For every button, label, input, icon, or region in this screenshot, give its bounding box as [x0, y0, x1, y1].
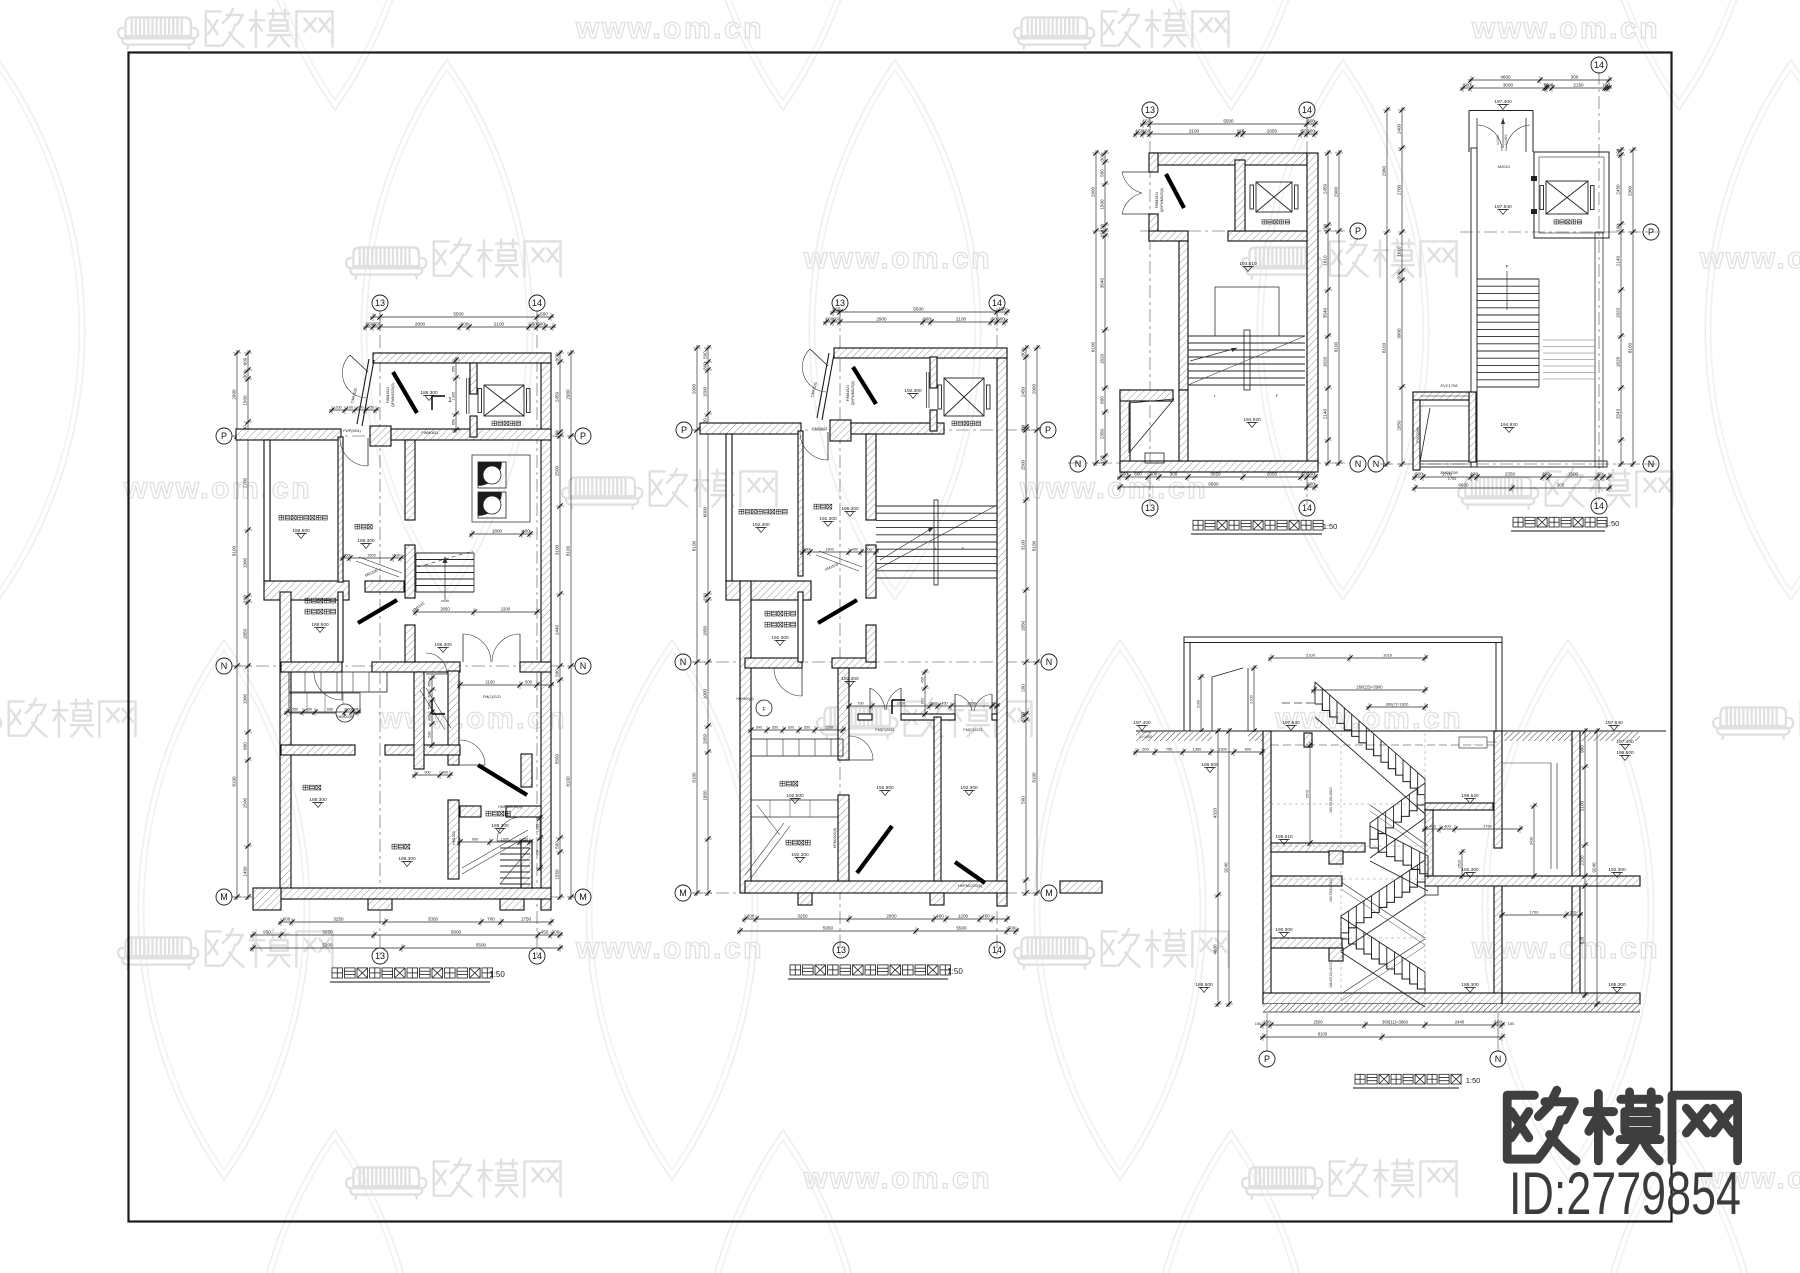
svg-text:2350: 2350	[1100, 428, 1105, 439]
svg-text:192.300: 192.300	[771, 635, 789, 641]
top dimension row (A)	[370, 313, 554, 321]
svg-text:www.om.cn: www.om.cn	[1699, 242, 1800, 275]
left vdim (E)	[1214, 728, 1222, 1007]
svg-text:530: 530	[428, 703, 432, 709]
annex left wall (D)	[1413, 400, 1420, 470]
svg-text:300: 300	[461, 322, 469, 327]
chamfer dims (A)	[329, 406, 379, 414]
svg-text:150: 150	[1495, 1020, 1503, 1025]
svg-text:300: 300	[997, 317, 1005, 322]
chamfer wall and entrance doors (B top-left)	[822, 354, 834, 420]
svg-text:P: P	[221, 431, 227, 441]
svg-text:150: 150	[833, 317, 841, 322]
svg-text:300: 300	[1100, 153, 1105, 161]
axis bubble N	[1490, 1051, 1506, 1067]
label: peacetime exhaust shaft (B)	[765, 622, 796, 627]
pier at chamfer (B)	[830, 420, 851, 441]
watermark: sofa + logo outline	[1458, 469, 1672, 509]
inner wall seg (A)	[405, 440, 415, 520]
top door recess walls (D)	[1469, 110, 1533, 112]
bottom dims row2 (E)	[1260, 1033, 1505, 1041]
svg-text:5500: 5500	[1223, 119, 1234, 124]
room label: airtight passage (B)	[786, 840, 810, 845]
cell dims (B)	[748, 726, 846, 734]
stair treads (C)	[1188, 336, 1305, 385]
dims above stair (B)	[800, 548, 879, 556]
note box (E)	[1459, 737, 1487, 748]
svg-text:FM(C)2021: FM(C)2021	[875, 728, 894, 732]
svg-text:N: N	[1648, 459, 1655, 469]
svg-text:500: 500	[703, 351, 708, 359]
beam under landing 190.3 (E)	[1329, 948, 1343, 961]
svg-text:www.om.cn: www.om.cn	[803, 1162, 992, 1195]
top dim row1 (D)	[1468, 76, 1612, 84]
svg-text:750: 750	[1166, 747, 1173, 752]
axis 13 line (B)	[839, 311, 841, 958]
upper dim (E)	[1268, 654, 1428, 662]
stair treads bottom (A)	[500, 848, 530, 884]
vent line double diagonal (A bottom right)	[462, 830, 528, 868]
stairwell left wall (C)	[1179, 241, 1188, 390]
stair arrow (C)	[1190, 348, 1237, 361]
svg-text:1850: 1850	[243, 628, 248, 639]
chamfer door leaf+arc (B)	[810, 349, 828, 366]
svg-text:197.540: 197.540	[1605, 720, 1623, 726]
hatch under bottom slab (E)	[1263, 1004, 1640, 1012]
stair direction diagonal (B)	[876, 505, 997, 570]
right inner dims (B)	[1022, 345, 1030, 896]
svg-text:500: 500	[540, 312, 548, 317]
top dim row2 (D)	[1460, 84, 1612, 92]
svg-text:FWM0811: FWM0811	[421, 431, 438, 435]
wall under landing (E)	[1425, 810, 1433, 876]
outer wall right (B)	[997, 358, 1007, 906]
elevator (C)	[1250, 182, 1298, 212]
door FWP(M01) on P wall (A)	[367, 438, 369, 466]
stair up arrow (D)	[1506, 271, 1508, 310]
top dim row1 (B)	[830, 308, 1010, 316]
svg-text:3100: 3100	[1189, 129, 1200, 134]
svg-text:450: 450	[541, 930, 549, 935]
svg-text:2050: 2050	[1267, 129, 1278, 134]
svg-text:300: 300	[747, 914, 755, 919]
svg-text:1750: 1750	[521, 917, 532, 922]
svg-text:200: 200	[703, 593, 708, 601]
title text E	[1355, 1074, 1461, 1084]
dashed continuation above cut (E)	[1271, 744, 1494, 746]
svg-text:1000: 1000	[703, 688, 708, 699]
svg-text:2100: 2100	[1250, 695, 1254, 703]
svg-text:500: 500	[1021, 796, 1026, 804]
section left wall (E)	[1263, 731, 1271, 1004]
svg-text:820: 820	[1580, 936, 1585, 944]
svg-text:250: 250	[345, 708, 351, 712]
axis bubble 13	[833, 942, 849, 958]
axis bubble N	[1368, 456, 1384, 472]
top dimension row 2 (A)	[363, 323, 556, 331]
svg-text:650: 650	[452, 366, 456, 372]
svg-text:500: 500	[865, 548, 871, 552]
stair flight F3 (E)	[1370, 826, 1428, 891]
svg-text:13: 13	[375, 951, 385, 961]
shaft wall thin (A)	[338, 592, 343, 662]
axis 14 line	[536, 311, 538, 958]
wall on axis N seg2 (A)	[372, 662, 460, 672]
svg-text:1300: 1300	[1218, 747, 1227, 752]
svg-text:3350: 3350	[428, 917, 439, 922]
shaft wall upper (B)	[930, 357, 937, 388]
axis bubble P	[1259, 1051, 1275, 1067]
svg-text:900: 900	[472, 838, 478, 842]
bottom dims row3 (A)	[250, 944, 563, 952]
svg-text:300: 300	[1307, 482, 1315, 487]
svg-text:5500: 5500	[453, 312, 464, 317]
penthouse roof outline (E)	[1184, 637, 1502, 731]
svg-text:2543: 2543	[1616, 408, 1621, 419]
exhaust fan lower (A)	[478, 492, 506, 518]
blast valve bold diag (B bottom right)	[955, 862, 985, 883]
corridor wall seg2 (B)	[901, 714, 955, 720]
svg-text:200: 200	[1470, 472, 1478, 477]
svg-text:N: N	[1495, 1054, 1502, 1064]
svg-text:3430: 3430	[1530, 837, 1534, 845]
svg-text:150: 150	[1323, 224, 1328, 232]
svg-text:2900: 2900	[1091, 186, 1096, 197]
construction vertical dashed lines (E)	[1340, 733, 1342, 1004]
svg-text:300: 300	[352, 708, 358, 712]
svg-text:100: 100	[347, 406, 353, 410]
svg-text:1550: 1550	[555, 869, 560, 880]
landing slab 196.520 (E)	[1425, 803, 1493, 810]
door HM1020 (A)	[460, 764, 485, 766]
right outer dims (C)	[1335, 150, 1343, 466]
svg-text:300: 300	[1008, 926, 1016, 931]
svg-text:2900: 2900	[1628, 185, 1633, 196]
bottom slab 188.300 (E)	[1263, 993, 1502, 1004]
svg-text:3540: 3540	[1100, 277, 1105, 288]
watermark: sofa + logo outline	[817, 699, 1031, 739]
svg-text:P: P	[1045, 425, 1051, 435]
wall at P right (C)	[1228, 231, 1307, 241]
svg-text:14: 14	[992, 945, 1002, 955]
stair treads upper (A)	[416, 553, 474, 592]
svg-text:200: 200	[1546, 83, 1554, 88]
left inner dims (D)	[1398, 107, 1406, 467]
svg-text:50: 50	[1301, 129, 1307, 134]
watermark: sofa + logo outline	[346, 1159, 560, 1199]
left ground dims (E)	[1133, 748, 1265, 756]
svg-text:P: P	[1355, 226, 1361, 236]
svg-text:188.300: 188.300	[309, 797, 327, 803]
svg-text:N: N	[1373, 459, 1380, 469]
room label: plenum (A)	[355, 524, 372, 529]
svg-text:N: N	[221, 661, 228, 671]
svg-text:8100: 8100	[692, 772, 697, 783]
svg-text:8100: 8100	[1382, 342, 1387, 353]
mid vdim2 (E)	[1530, 803, 1538, 879]
room divider wall (B)	[798, 431, 803, 576]
door lower right (A)	[497, 840, 521, 842]
svg-text:192.500: 192.500	[786, 793, 804, 799]
svg-text:1500: 1500	[367, 554, 375, 558]
left outer dims (C)	[1092, 150, 1100, 466]
svg-text:QFWM1525(6): QFWM1525(6)	[391, 383, 395, 407]
room label: expansion room (A)	[303, 785, 321, 790]
svg-text:1200: 1200	[958, 914, 969, 919]
flight dim (E)	[1311, 686, 1428, 694]
outer wall left (B)	[740, 581, 751, 893]
svg-text:196.520: 196.520	[1461, 793, 1479, 799]
horiz wall right area seg2 (A)	[506, 806, 541, 817]
chamfer door leaf+arc (A)	[350, 355, 368, 372]
svg-text:300: 300	[1571, 75, 1579, 80]
section right wall lower (E)	[1494, 884, 1502, 1004]
svg-text:6600: 6600	[1208, 482, 1219, 487]
svg-text:3540: 3540	[1323, 307, 1328, 318]
pier stub below M (A)	[500, 899, 524, 910]
watermark: sofa + logo outline	[1713, 699, 1800, 739]
svg-text:1900: 1900	[243, 557, 248, 568]
penthouse door profile (E)	[1211, 677, 1213, 731]
svg-text:2440: 2440	[1455, 1020, 1465, 1025]
svg-text:192.300: 192.300	[791, 852, 809, 858]
axis P line (B)	[692, 429, 1040, 431]
svg-text:4600: 4600	[1213, 944, 1218, 955]
axis bubble N	[1041, 654, 1057, 670]
inner wall seg (B)	[866, 625, 876, 662]
svg-text:2450: 2450	[1021, 386, 1026, 397]
svg-text:150: 150	[1508, 1021, 1515, 1026]
svg-text:2100: 2100	[1580, 800, 1585, 811]
right vdim outer (E)	[1593, 728, 1601, 1007]
svg-text:2700: 2700	[243, 477, 248, 488]
svg-text:196.500: 196.500	[1616, 750, 1634, 756]
svg-text:2850: 2850	[703, 733, 708, 744]
svg-text:2960: 2960	[1382, 165, 1387, 176]
room label: fan room (A)	[279, 515, 327, 520]
fan dims (A)	[469, 530, 533, 538]
svg-text:8100: 8100	[232, 545, 237, 556]
svg-text:FM*0821: FM*0821	[812, 427, 827, 431]
axis P line	[232, 435, 575, 437]
svg-text:188.300: 188.300	[491, 823, 509, 829]
witness lines to bubbles (E)	[1266, 1013, 1268, 1051]
svg-text:450: 450	[921, 677, 925, 683]
stair flight treads (D)	[1477, 279, 1539, 387]
ground hatch right (E)	[1504, 732, 1640, 741]
svg-text:150: 150	[1143, 129, 1151, 134]
landing slab 190.300 (E)	[1271, 938, 1342, 948]
svg-text:14: 14	[532, 298, 542, 308]
svg-text:550: 550	[772, 726, 778, 730]
axis bubble 14	[989, 295, 1005, 311]
svg-text:8100: 8100	[692, 540, 697, 551]
svg-text:1200: 1200	[967, 702, 975, 706]
svg-text:P: P	[1264, 1054, 1270, 1064]
svg-text:550: 550	[292, 708, 298, 712]
svg-text:HMFM2K20(6): HMFM2K20(6)	[498, 805, 522, 809]
svg-text:FWM1524: FWM1524	[846, 385, 850, 402]
axis bubble N	[1350, 456, 1366, 472]
svg-text:1000: 1000	[536, 824, 540, 832]
watermark: sofa + logo outline	[118, 929, 332, 969]
svg-text:P: P	[681, 425, 687, 435]
svg-text:1250: 1250	[825, 726, 833, 730]
svg-text:150: 150	[1264, 1020, 1272, 1025]
axis P line (D)	[1460, 231, 1658, 233]
svg-text:2450: 2450	[555, 391, 560, 402]
svg-text:1500: 1500	[1100, 199, 1105, 210]
svg-text:6600: 6600	[1458, 483, 1469, 488]
small dims airlock (A)	[284, 708, 361, 716]
svg-text:2800: 2800	[415, 322, 426, 327]
svg-text:192.300: 192.300	[960, 785, 978, 791]
right outer dims (B)	[1033, 345, 1041, 896]
small dims vert (A)	[428, 675, 436, 748]
room label: filter room (A)	[392, 844, 410, 849]
wall at P (C)	[1149, 231, 1188, 241]
shaft wall thin (B)	[798, 592, 803, 662]
fire shutter bold diag (C)	[1166, 174, 1184, 208]
svg-text:2500: 2500	[555, 465, 560, 476]
svg-text:300: 300	[243, 370, 248, 378]
axis bubble P	[1040, 422, 1056, 438]
svg-text:F: F	[762, 707, 765, 713]
svg-text:200: 200	[1542, 472, 1550, 477]
stairwell floor opening (C)	[1215, 287, 1279, 336]
stair direction arrow (A)	[444, 560, 446, 600]
room wall left thin (B)	[726, 434, 732, 581]
axis bubble 13	[372, 948, 388, 964]
svg-text:2150: 2150	[1573, 83, 1584, 88]
axis bubble N	[575, 658, 591, 674]
vestibule vdim (A)	[452, 357, 460, 433]
svg-text:853: 853	[921, 698, 925, 704]
axis bubble 14	[1591, 498, 1607, 514]
axis M line (B)	[692, 892, 1040, 894]
inner wall lower seg (B)	[838, 795, 849, 881]
door height dim (E)	[1197, 674, 1205, 734]
svg-text:1400: 1400	[1397, 123, 1402, 134]
svg-text:540: 540	[756, 726, 762, 730]
svg-text:i=5%: i=5%	[1142, 730, 1151, 734]
svg-text:2900: 2900	[1032, 383, 1037, 394]
title text D	[1513, 517, 1607, 527]
svg-text:50: 50	[991, 317, 997, 322]
ground line (E)	[1136, 730, 1666, 732]
svg-text:3250: 3250	[797, 914, 808, 919]
svg-text:9240: 9240	[1592, 862, 1597, 873]
svg-text:1450: 1450	[243, 866, 248, 877]
svg-text:8100: 8100	[1032, 540, 1037, 551]
right room wall seg (A)	[521, 841, 532, 888]
svg-text:1850: 1850	[1021, 620, 1026, 631]
svg-text:1000: 1000	[501, 838, 509, 842]
stairwell left wall lower (C)	[1179, 390, 1188, 461]
bottom dims row2 (C)	[1117, 483, 1318, 491]
svg-text:200: 200	[243, 595, 248, 603]
double door FM2021 (B)	[869, 688, 871, 714]
bottom slab right (E)	[1502, 993, 1640, 1004]
svg-text:192.300: 192.300	[841, 676, 859, 682]
svg-text:1500: 1500	[243, 395, 248, 406]
elevator door sill (A)	[466, 378, 468, 414]
svg-text:1820: 1820	[1323, 356, 1328, 367]
title text A	[332, 968, 493, 978]
svg-text:5500: 5500	[476, 943, 487, 948]
svg-text:2050: 2050	[1397, 420, 1402, 431]
svg-text:2900: 2900	[886, 914, 897, 919]
annex inner lines (D)	[1420, 395, 1469, 397]
svg-text:8100: 8100	[1318, 1032, 1328, 1037]
svg-text:100: 100	[1616, 224, 1621, 232]
svg-text:14: 14	[1594, 60, 1604, 70]
svg-text:1850: 1850	[703, 625, 708, 636]
svg-text:194.920: 194.920	[1243, 417, 1261, 423]
door in lower wall (B)	[849, 759, 873, 761]
svg-text:3000: 3000	[1503, 83, 1514, 88]
double door M2121 (A)	[462, 634, 464, 662]
left outer dims (A)	[233, 350, 241, 900]
wall under machine room (B)	[726, 581, 811, 600]
svg-text:5950: 5950	[823, 926, 834, 931]
corner pier (A)	[253, 888, 281, 910]
svg-text:150: 150	[1143, 119, 1151, 124]
svg-text:1500: 1500	[703, 386, 708, 397]
room wall left thin (A)	[264, 440, 270, 581]
right room wall seg (A)	[521, 754, 532, 787]
bottom dims row2 (A)	[250, 931, 563, 939]
exhaust fan upper (A)	[478, 462, 506, 488]
twin flight thin diagonal (E storey2)	[1370, 805, 1428, 846]
outer wall right (C)	[1307, 153, 1318, 468]
mid wall lower (A)	[281, 745, 355, 755]
top dim row2 (C)	[1133, 130, 1318, 138]
landing slab 195.610 (E)	[1271, 843, 1365, 852]
step block under slab 192.3 (E)	[1425, 886, 1438, 895]
axis bubble P	[1350, 223, 1366, 239]
svg-text:HFM2020(6): HFM2020(6)	[833, 828, 837, 848]
svg-text:5500: 5500	[913, 307, 924, 312]
svg-text:188.300: 188.300	[357, 538, 375, 544]
floor slab 192.300 left (E)	[1271, 876, 1342, 886]
svg-text:8100: 8100	[1032, 772, 1037, 783]
top dim row2 (B)	[823, 318, 1008, 326]
elevator (D)	[1540, 181, 1594, 214]
axis bubble 13	[1142, 102, 1158, 118]
svg-text:192.900: 192.900	[876, 785, 894, 791]
svg-text:i=10%: i=10%	[1496, 135, 1500, 145]
axis N line	[232, 665, 575, 667]
inner corridor wall (A)	[414, 672, 424, 769]
right outer dims (D)	[1629, 147, 1637, 467]
axis bubble 14	[1299, 500, 1315, 516]
section mark 1 (A)	[431, 396, 433, 410]
svg-text:2350: 2350	[1505, 472, 1516, 477]
vent diagonal (B cells)	[757, 805, 780, 835]
door dim (A)	[457, 681, 554, 689]
svg-text:1700: 1700	[1448, 477, 1456, 481]
svg-text:2900: 2900	[1334, 186, 1339, 197]
svg-text:F: F	[1506, 264, 1509, 269]
stair center rail (C)	[1244, 330, 1250, 390]
svg-text:QHFWM525(6): QHFWM525(6)	[1160, 188, 1164, 212]
svg-text:50: 50	[1597, 472, 1603, 477]
svg-text:200: 200	[931, 702, 937, 706]
door jamb blocks (D)	[1531, 176, 1537, 181]
svg-text:M: M	[679, 888, 687, 898]
svg-text:300: 300	[1557, 483, 1565, 488]
